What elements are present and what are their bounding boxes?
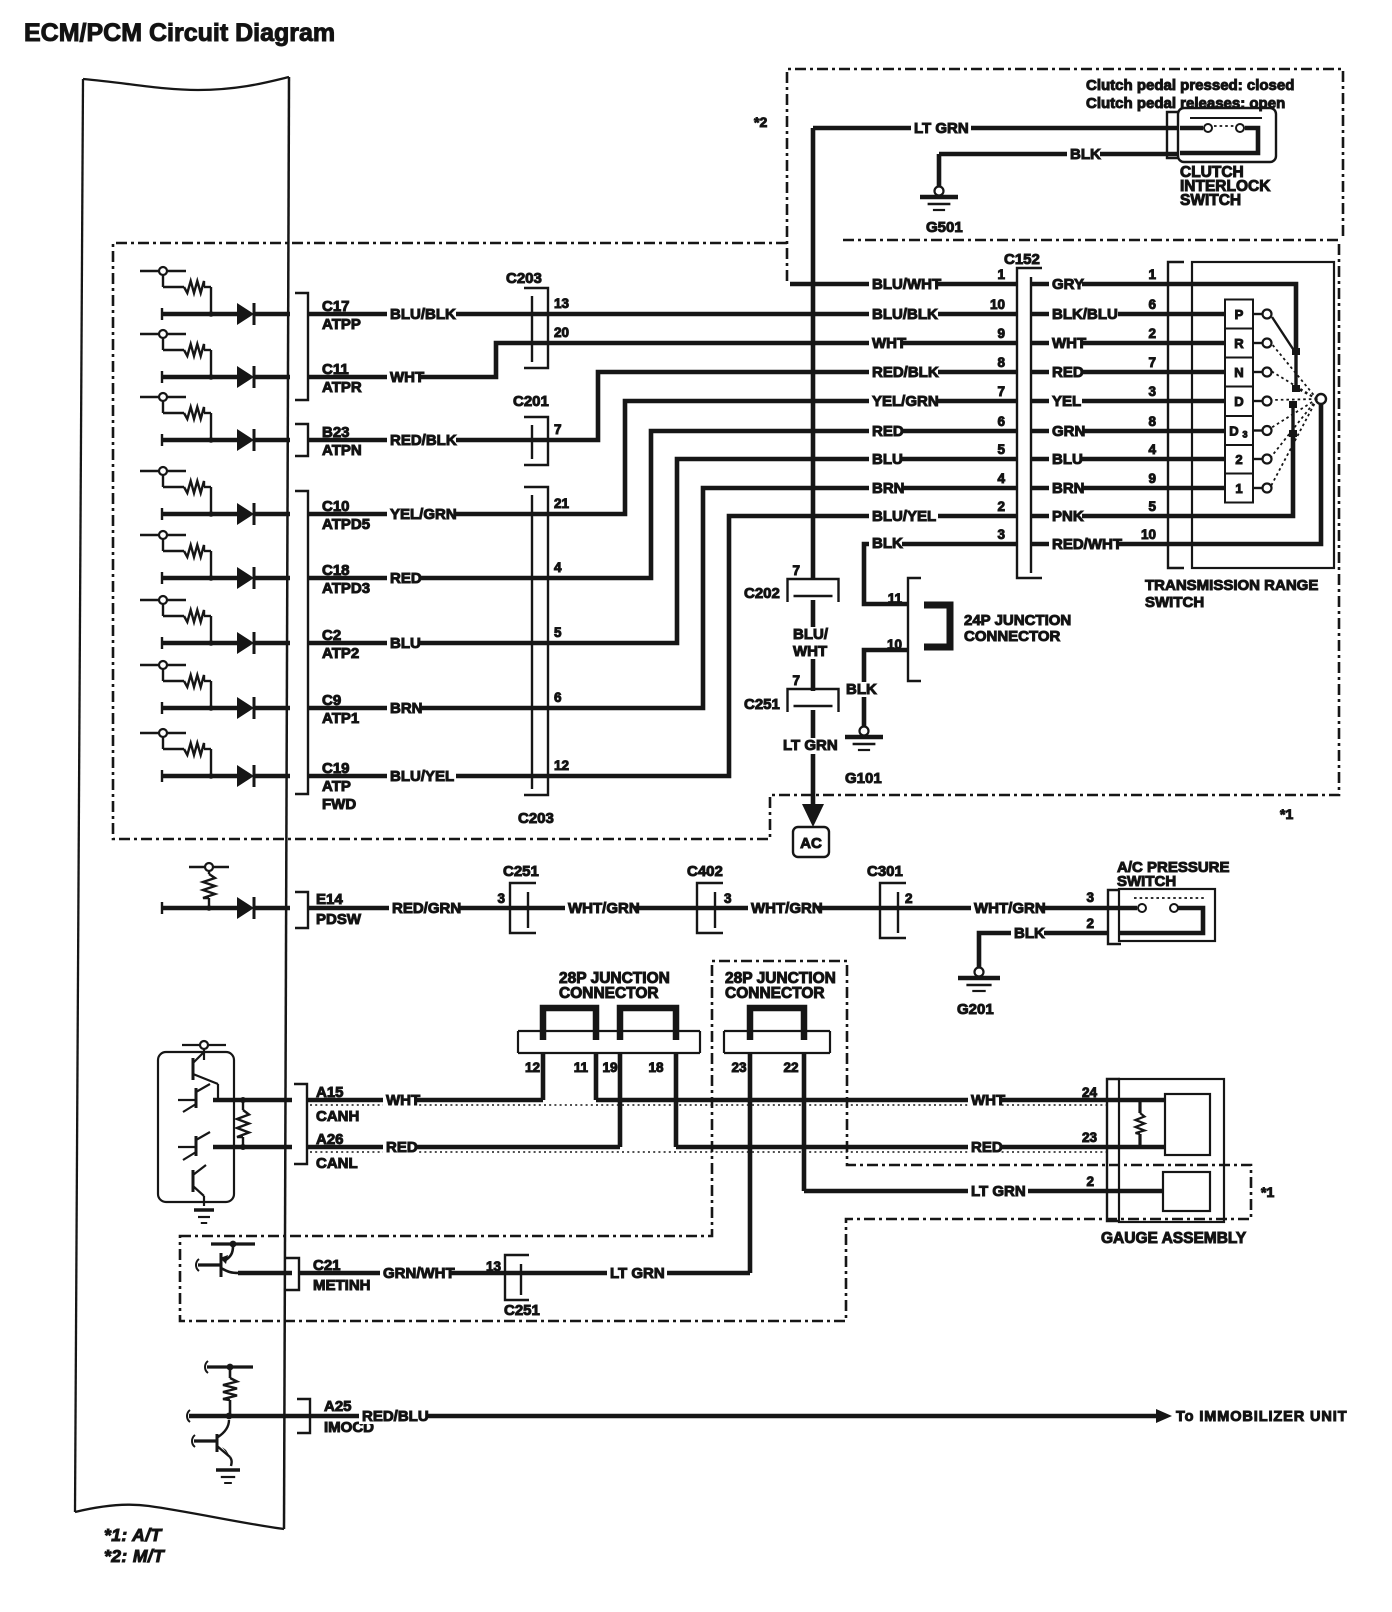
svg-text:E14: E14 xyxy=(316,891,343,908)
wire colour label WHT (C152 right) xyxy=(1049,335,1086,352)
pin 3 (A/C pressure switch) xyxy=(1086,890,1094,905)
clutch interlock switch xyxy=(1178,108,1276,162)
label TRANSMISSION RANGE SWITCH xyxy=(1145,577,1318,611)
svg-text:RED: RED xyxy=(872,423,904,440)
wire colour label WHT xyxy=(387,369,424,386)
pin label E14 PDSW xyxy=(316,891,362,928)
svg-text:C201: C201 xyxy=(513,393,549,410)
svg-text:13: 13 xyxy=(554,296,570,311)
label 28P JUNCTION CONNECTOR xyxy=(725,970,836,1002)
connector C203 (lower, pins 21/4/5/6/12) xyxy=(518,487,554,827)
wire YEL (C152 to transmission range switch) xyxy=(1031,399,1225,404)
svg-text:4: 4 xyxy=(997,471,1005,486)
connector C251 xyxy=(744,689,839,713)
svg-text:BLU: BLU xyxy=(1052,451,1083,468)
rotor dotted travel line xyxy=(1296,388,1317,399)
svg-text:GRN/WHT: GRN/WHT xyxy=(383,1265,455,1282)
svg-text:7: 7 xyxy=(1148,355,1156,370)
transistor Q2 xyxy=(178,1084,210,1112)
wire BLU/WHT row to C152 pin1 xyxy=(790,282,1017,287)
svg-text:5: 5 xyxy=(997,442,1005,457)
svg-text:BLK: BLK xyxy=(1070,146,1101,163)
svg-text:ATPN: ATPN xyxy=(322,442,362,459)
svg-text:11: 11 xyxy=(574,1060,589,1075)
wire PDSW RED/GRN / WHT/GRN row xyxy=(308,906,1137,911)
svg-text:C301: C301 xyxy=(867,863,903,880)
svg-text:2: 2 xyxy=(1148,326,1156,341)
svg-text:7: 7 xyxy=(554,422,562,437)
gauge assembly connector bracket xyxy=(1107,1079,1120,1221)
24P junction connector bracket xyxy=(908,578,921,681)
gear position contact box 2 xyxy=(1225,445,1253,474)
connector C402 xyxy=(687,863,723,933)
rotor dotted travel line xyxy=(1271,399,1317,428)
AC box xyxy=(793,827,829,857)
pin 2 (C152 left) xyxy=(997,499,1005,514)
svg-text:G201: G201 xyxy=(957,1001,994,1018)
svg-text:G501: G501 xyxy=(926,219,963,236)
pin 4 (C152 left) xyxy=(997,471,1005,486)
svg-text:CONNECTOR: CONNECTOR xyxy=(964,628,1061,645)
contact 1 xyxy=(1253,484,1272,493)
wire colour label WHT/GRN xyxy=(565,900,640,917)
svg-text:*2: *2 xyxy=(754,114,767,130)
wire colour label BLU/WHT xyxy=(791,626,835,660)
connector C251 xyxy=(504,1255,540,1319)
svg-text:3: 3 xyxy=(997,527,1005,542)
svg-text:SWITCH: SWITCH xyxy=(1117,873,1176,890)
pin 18 xyxy=(648,1060,664,1075)
ECM connector bracket C17/C11 xyxy=(295,293,308,400)
svg-text:BRN: BRN xyxy=(872,480,905,497)
transmission range switch connector bar xyxy=(1168,262,1184,568)
wire ATPR WHT row (C11 pin20 to C152) xyxy=(308,343,1017,377)
label To IMMOBILIZER UNIT xyxy=(1176,1409,1347,1425)
svg-text:ATP2: ATP2 xyxy=(322,645,359,662)
ground (IMOCD emitter) xyxy=(216,1470,240,1483)
svg-text:BLU/: BLU/ xyxy=(793,626,829,643)
svg-text:7: 7 xyxy=(997,384,1005,399)
title xyxy=(24,19,335,47)
wire colour label BLK (C152 left) xyxy=(869,535,903,552)
svg-text:YEL: YEL xyxy=(1052,393,1081,410)
wire RED/WHT (C152 to transmission range switch) xyxy=(1031,542,1192,547)
ECM internal pull-up resistor and diode cell (row y=708) xyxy=(140,661,290,719)
rotor pivot xyxy=(1316,394,1326,404)
svg-text:C202: C202 xyxy=(744,585,780,602)
pin 12 xyxy=(554,758,569,773)
svg-text:*1: A/T: *1: A/T xyxy=(104,1525,162,1545)
pin label C2 ATP2 xyxy=(322,627,359,662)
wire colour label BLU/YEL (C152 left) xyxy=(869,508,938,525)
svg-text:13: 13 xyxy=(486,1259,502,1274)
pin 3 (C251) xyxy=(497,891,505,906)
transmission range switch box xyxy=(1192,262,1334,568)
svg-text:G101: G101 xyxy=(845,770,882,787)
ECM internal pull-up resistor and diode cell (row y=314) xyxy=(140,267,290,325)
svg-text:WHT: WHT xyxy=(386,1092,420,1109)
svg-text:WHT/GRN: WHT/GRN xyxy=(974,900,1046,917)
svg-text:12: 12 xyxy=(554,758,569,773)
dashed region boundary *1 A/T (left block) xyxy=(113,240,1339,839)
pin 9 (C152 right) xyxy=(1148,471,1156,486)
note clutch pedal states xyxy=(1086,77,1294,112)
wire LT GRN (28P pin22 to gauge pin2) xyxy=(804,1189,1163,1194)
svg-text:PDSW: PDSW xyxy=(316,911,362,928)
wire BLK to G201 xyxy=(979,933,1108,968)
svg-text:METINH: METINH xyxy=(313,1277,371,1294)
CAN bus termination resistor xyxy=(237,1097,249,1150)
svg-text:6: 6 xyxy=(1148,297,1156,312)
wire colour label BRN (C152 right) xyxy=(1049,480,1085,497)
svg-text:*2: M/T: *2: M/T xyxy=(104,1546,165,1566)
rotor dotted travel line xyxy=(1271,343,1317,399)
note *1 (gauge) xyxy=(1261,1184,1274,1200)
wire CANH WHT (A15 to 28P pin12) xyxy=(307,1098,543,1103)
svg-text:C203: C203 xyxy=(506,270,542,287)
svg-text:24P JUNCTION: 24P JUNCTION xyxy=(964,612,1071,629)
wire GRY into switch to upper movable contact xyxy=(1192,284,1296,351)
wire colour label RED/BLK (C152 left) xyxy=(869,364,939,381)
wire BLK from clutch interlock switch xyxy=(939,152,1180,157)
svg-text:1: 1 xyxy=(1235,481,1242,496)
wire BLK row (C152 pin3) xyxy=(864,544,1017,604)
pin 7 xyxy=(554,422,562,437)
gear position contact box R xyxy=(1225,329,1253,358)
wire colour label BLU/BLK (C152 left) xyxy=(869,306,938,323)
ECM connector bracket B23 xyxy=(295,424,308,456)
wire CANL inside ECM xyxy=(213,1145,292,1150)
rotor dotted travel line xyxy=(1271,399,1317,400)
svg-text:YEL/GRN: YEL/GRN xyxy=(872,393,939,410)
svg-text:RED: RED xyxy=(1052,364,1084,381)
pin label A15 CANH xyxy=(316,1084,359,1125)
svg-text:7: 7 xyxy=(792,673,800,688)
svg-text:5: 5 xyxy=(1148,499,1156,514)
wire PNK (C152 to transmission range switch) xyxy=(1031,514,1192,519)
wire colour label LT GRN xyxy=(607,1265,667,1282)
ECM internal pull-up resistor and diode cell (row y=377) xyxy=(140,330,290,388)
label 28P JUNCTION CONNECTOR xyxy=(559,970,670,1002)
pin 7 (C251) xyxy=(792,673,800,688)
svg-text:Clutch pedal releases: open: Clutch pedal releases: open xyxy=(1086,95,1285,112)
svg-text:2: 2 xyxy=(997,499,1005,514)
gear position contact box N xyxy=(1225,358,1253,387)
ECM internal resistor cell E14 xyxy=(162,863,290,919)
label 24P JUNCTION CONNECTOR xyxy=(964,612,1071,645)
svg-text:3: 3 xyxy=(724,891,732,906)
svg-text:ATPD5: ATPD5 xyxy=(322,516,370,533)
svg-text:24: 24 xyxy=(1082,1085,1098,1100)
gauge assembly box xyxy=(1119,1079,1224,1222)
gear position contact box 1 xyxy=(1225,474,1253,503)
svg-text:C251: C251 xyxy=(503,863,539,880)
wire GRN (C152 to transmission range switch) xyxy=(1031,429,1225,434)
svg-text:ATP1: ATP1 xyxy=(322,710,359,727)
svg-text:GAUGE ASSEMBLY: GAUGE ASSEMBLY xyxy=(1101,1230,1247,1247)
wire colour label YEL/GRN xyxy=(387,506,457,523)
svg-text:D: D xyxy=(1234,394,1243,409)
svg-text:R: R xyxy=(1234,336,1244,351)
pin 2 (A/C pressure switch) xyxy=(1086,916,1094,931)
svg-text:BLU: BLU xyxy=(390,635,421,652)
svg-text:12: 12 xyxy=(525,1060,540,1075)
svg-text:22: 22 xyxy=(783,1060,798,1075)
svg-text:WHT/GRN: WHT/GRN xyxy=(568,900,640,917)
svg-text:*1: *1 xyxy=(1261,1184,1274,1200)
svg-text:ATP: ATP xyxy=(322,778,351,795)
wire colour label RED (gauge side) xyxy=(968,1139,1003,1156)
transistor Q6 (IMOCD) xyxy=(192,1420,232,1466)
pin 13 (C251) xyxy=(486,1259,502,1274)
ECM internal pull-up resistor and diode cell (row y=578) xyxy=(140,531,290,589)
pin 19 stub xyxy=(618,1053,623,1147)
wire colour label YEL (C152 right) xyxy=(1049,393,1082,410)
svg-text:9: 9 xyxy=(997,326,1005,341)
wire colour label BLK/BLU (C152 right) xyxy=(1049,306,1118,323)
svg-text:RED/GRN: RED/GRN xyxy=(392,900,461,917)
svg-text:2: 2 xyxy=(905,891,913,906)
svg-text:C251: C251 xyxy=(744,696,780,713)
svg-text:Clutch pedal pressed: closed: Clutch pedal pressed: closed xyxy=(1086,77,1294,94)
ECM connector bracket E14 xyxy=(295,892,308,928)
svg-text:GRN: GRN xyxy=(1052,423,1085,440)
pin 13 xyxy=(554,296,570,311)
svg-text:3: 3 xyxy=(1148,384,1156,399)
svg-text:BLU: BLU xyxy=(872,451,903,468)
wire colour label RED/BLK xyxy=(387,432,457,449)
pin 8 (C152 left) xyxy=(997,355,1005,370)
svg-text:BRN: BRN xyxy=(1052,480,1085,497)
svg-text:BLK: BLK xyxy=(846,681,877,698)
pin 1 (C152 left) xyxy=(997,267,1005,282)
note *2 xyxy=(754,114,767,130)
wire CANL RED (28P pin18 to gauge pin23) xyxy=(676,1145,1165,1150)
svg-text:18: 18 xyxy=(648,1060,664,1075)
pin 23 (gauge) xyxy=(1082,1130,1098,1145)
svg-text:ATPD3: ATPD3 xyxy=(322,580,370,597)
pin 10 xyxy=(887,637,902,652)
wire RED (C152 to transmission range switch) xyxy=(1031,370,1225,375)
transistor Q5 (METINH driver) xyxy=(196,1241,292,1277)
rotor dotted travel line xyxy=(1271,371,1317,399)
ground (CAN block) xyxy=(194,1210,214,1223)
wire colour label GRN/WHT xyxy=(380,1265,455,1282)
ECM/PCM module band (torn strip) xyxy=(75,77,289,1529)
pin 2 (gauge) xyxy=(1086,1174,1094,1189)
pin label C21 METINH xyxy=(313,1257,371,1294)
pin 11 xyxy=(574,1060,589,1075)
wire IMOCD RED/BLU to immobilizer xyxy=(189,1414,1158,1419)
ECM internal pull-up resistor and diode cell (row y=643) xyxy=(140,596,290,654)
pin 12 xyxy=(525,1060,540,1075)
wire colour label RED/WHT (C152 right) xyxy=(1049,536,1122,553)
svg-text:C152: C152 xyxy=(1004,251,1040,268)
svg-text:AC: AC xyxy=(800,835,822,852)
wire colour label YEL/GRN (C152 left) xyxy=(869,393,939,410)
dashed region boundary *2 M/T (clutch block) xyxy=(787,69,1343,281)
svg-text:P: P xyxy=(1235,307,1244,322)
ECM connector bracket A15/A26 xyxy=(294,1084,307,1164)
svg-text:LT GRN: LT GRN xyxy=(914,120,969,137)
contact D3 xyxy=(1253,426,1272,435)
svg-text:CONNECTOR: CONNECTOR xyxy=(559,985,659,1002)
svg-text:3: 3 xyxy=(497,891,505,906)
A/C pressure switch xyxy=(1119,889,1215,941)
svg-text:LT GRN: LT GRN xyxy=(783,737,838,754)
svg-text:WHT: WHT xyxy=(1052,335,1086,352)
wire colour label BLU xyxy=(387,635,421,652)
arrow to AC compressor xyxy=(802,804,824,827)
label A/C PRESSURE SWITCH xyxy=(1117,859,1230,890)
wire BLU (C152 to transmission range switch) xyxy=(1031,457,1225,462)
wire colour label BRN (C152 left) xyxy=(869,480,905,497)
svg-text:BLK: BLK xyxy=(1014,925,1045,942)
svg-text:1: 1 xyxy=(997,267,1005,282)
svg-text:8: 8 xyxy=(1148,414,1156,429)
wire colour label WHT xyxy=(383,1092,420,1109)
pin 3 (C152 left) xyxy=(997,527,1005,542)
28P junction connector (left) xyxy=(518,1008,700,1053)
connector C202 xyxy=(744,579,839,602)
svg-text:C203: C203 xyxy=(518,810,554,827)
pin label C19 ATP FWD xyxy=(322,760,356,813)
wire CANH WHT (28P pin11 to gauge pin24) xyxy=(596,1098,1165,1103)
svg-text:WHT/GRN: WHT/GRN xyxy=(751,900,823,917)
svg-text:BLU/YEL: BLU/YEL xyxy=(872,508,936,525)
ground G501 xyxy=(920,187,963,237)
pin label A25 IMOCD xyxy=(324,1398,374,1436)
svg-text:BLU/WHT: BLU/WHT xyxy=(872,276,941,293)
twisted pair dotted guide (CANH) xyxy=(310,1104,1107,1106)
pin 12 stub xyxy=(541,1053,546,1100)
svg-text:To IMMOBILIZER UNIT: To IMMOBILIZER UNIT xyxy=(1176,1409,1347,1425)
svg-text:4: 4 xyxy=(1148,442,1156,457)
wire colour label BLK xyxy=(1011,925,1045,942)
label CLUTCH INTERLOCK SWITCH xyxy=(1180,164,1271,209)
pin label C17 ATPP xyxy=(322,298,361,333)
footnote *1 A/T xyxy=(104,1525,162,1545)
svg-text:CANL: CANL xyxy=(316,1155,358,1172)
pin label C18 ATPD3 xyxy=(322,562,370,597)
svg-text:19: 19 xyxy=(602,1060,617,1075)
svg-text:FWD: FWD xyxy=(322,796,356,813)
contact P xyxy=(1253,310,1272,319)
svg-text:10: 10 xyxy=(887,637,902,652)
svg-text:GRY: GRY xyxy=(1052,276,1084,293)
svg-text:BLK: BLK xyxy=(872,535,903,552)
svg-text:4: 4 xyxy=(554,560,562,575)
upper movable contact bar xyxy=(1272,317,1300,392)
svg-text:23: 23 xyxy=(731,1060,747,1075)
ECM internal CAN transceiver block xyxy=(158,1041,234,1202)
svg-text:9: 9 xyxy=(1148,471,1156,486)
pin 11 xyxy=(888,591,903,606)
wire colour label GRN (C152 right) xyxy=(1049,423,1085,440)
wire colour label LT GRN xyxy=(911,120,971,137)
wire CANH inside ECM xyxy=(213,1098,292,1103)
pin 1 (C152 right) xyxy=(1148,267,1156,282)
pin 11 stub xyxy=(594,1053,599,1100)
pin 2 (C152 right) xyxy=(1148,326,1156,341)
rotor dotted travel line xyxy=(1271,399,1317,457)
pin 6 xyxy=(554,690,562,705)
label GAUGE ASSEMBLY xyxy=(1101,1230,1247,1247)
transistor Q4 (CANL driver) xyxy=(193,1165,206,1206)
pin 10 (C152 right) xyxy=(1141,527,1156,542)
wire colour label WHT/GRN xyxy=(748,900,823,917)
pin label C11 ATPR xyxy=(322,361,362,396)
lower movable contact bar xyxy=(1289,401,1297,437)
svg-text:CONNECTOR: CONNECTOR xyxy=(725,985,825,1002)
svg-text:RED/BLU: RED/BLU xyxy=(362,1408,429,1425)
pin 4 (C152 right) xyxy=(1148,442,1156,457)
wire LT GRN to clutch interlock switch xyxy=(813,126,1203,131)
contact 2 xyxy=(1253,455,1272,464)
svg-text:23: 23 xyxy=(1082,1130,1098,1145)
pin 20 xyxy=(554,325,569,340)
svg-text:C251: C251 xyxy=(504,1302,540,1319)
pin label C10 ATPD5 xyxy=(322,498,370,533)
svg-text:BLU/BLK: BLU/BLK xyxy=(390,306,456,323)
pin 6 (C152 right) xyxy=(1148,297,1156,312)
svg-text:11: 11 xyxy=(888,591,903,606)
svg-text:RED: RED xyxy=(390,570,422,587)
transistor Q3 xyxy=(178,1132,210,1160)
contact N xyxy=(1253,368,1272,377)
svg-text:C402: C402 xyxy=(687,863,723,880)
svg-text:CANH: CANH xyxy=(316,1108,359,1125)
connector C251 xyxy=(503,863,539,933)
svg-text:A25: A25 xyxy=(324,1398,352,1415)
wire BLK to ground G101 (24P pin10) xyxy=(864,650,908,727)
pin 22 stub (to gauge LT GRN) xyxy=(802,1053,807,1191)
ECM connector bracket A25 xyxy=(297,1399,310,1433)
wire colour label GRY (C152 right) xyxy=(1049,276,1084,293)
wire colour label BLK xyxy=(1067,146,1101,163)
wire ATPD3 RED row (C18 pin4 to C152) xyxy=(308,431,1017,578)
svg-text:1: 1 xyxy=(1148,267,1156,282)
pin 10 (C152 left) xyxy=(990,297,1005,312)
ECM internal resistor + transistor cell A25 xyxy=(187,1361,253,1422)
wire colour label BLU/BLK xyxy=(387,306,456,323)
wire colour label RED xyxy=(383,1139,418,1156)
pin label B23 ATPN xyxy=(322,424,362,459)
wire colour label RED/GRN xyxy=(389,900,461,917)
wire BLK down to G501 xyxy=(937,154,942,186)
pin 4 xyxy=(554,560,562,575)
svg-text:RED/BLK: RED/BLK xyxy=(390,432,457,449)
wire colour label RED (C152 left) xyxy=(869,423,904,440)
svg-text:SWITCH: SWITCH xyxy=(1145,594,1204,611)
gear position contact box D3 xyxy=(1225,416,1253,445)
gauge CAN terminator xyxy=(1136,1094,1211,1155)
wire ATP2 BLU row (C2 pin5 to C152) xyxy=(308,459,1017,643)
wire GRY (C152 to transmission range switch) xyxy=(1031,282,1192,287)
pin 18 stub xyxy=(674,1053,679,1147)
svg-text:BRN: BRN xyxy=(390,700,423,717)
clutch interlock switch connector bracket xyxy=(1167,112,1180,158)
wire ATPP BLU/BLK row (C17 pin13 to C152) xyxy=(308,312,1017,317)
wire RED/WHT into switch to rotor pivot xyxy=(1192,404,1321,544)
pin 8 (C152 right) xyxy=(1148,414,1156,429)
svg-text:20: 20 xyxy=(554,325,569,340)
gear position contact box P xyxy=(1225,300,1253,329)
wire BLK/BLU (C152 to transmission range switch) xyxy=(1031,312,1225,317)
svg-text:ATPR: ATPR xyxy=(322,379,362,396)
svg-text:WHT: WHT xyxy=(793,643,827,660)
svg-text:BLK/BLU: BLK/BLU xyxy=(1052,306,1118,323)
